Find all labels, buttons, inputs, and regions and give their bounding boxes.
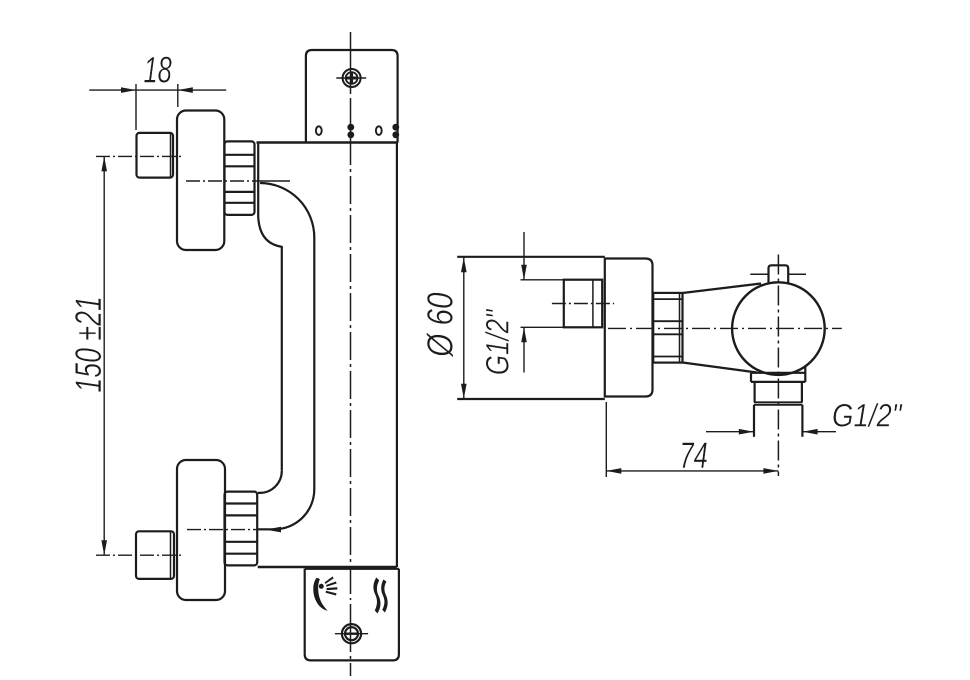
- body top edge: [257, 141, 398, 144]
- top bend outer arc: [260, 183, 314, 238]
- side body bottom edge: [457, 398, 605, 400]
- side nut: [653, 293, 682, 363]
- dimension 74 text: [680, 434, 708, 476]
- top escutcheon flange: [177, 111, 224, 251]
- svg-text:G1/2": G1/2": [832, 399, 903, 435]
- cone connector: [684, 284, 762, 373]
- side wall fitting: [564, 280, 602, 328]
- top connection nut: [225, 141, 255, 215]
- side body centerline: [608, 327, 842, 329]
- outlet pipe thread: [754, 405, 802, 437]
- dimension G12 side text: [480, 308, 516, 375]
- dimension 150 pm 21: [101, 156, 107, 555]
- dimension 18 text: [144, 48, 172, 90]
- dimension G12 outlet text: [832, 399, 903, 435]
- body right edge: [396, 143, 398, 568]
- bottom mounting plate: [305, 569, 399, 661]
- svg-text:G1/2": G1/2": [480, 308, 516, 375]
- side body top edge: [457, 256, 605, 258]
- bottom wall fitting: [136, 531, 174, 579]
- svg-text:74: 74: [680, 434, 708, 476]
- pipe left edge: [281, 246, 283, 471]
- dimension diameter 60 text: [421, 292, 462, 358]
- svg-text:150 ±21: 150 ±21: [68, 296, 109, 392]
- plate holes row: [316, 124, 399, 138]
- bottom nut centerline with arrow: [187, 527, 281, 533]
- bottom bend inner arc: [258, 471, 282, 493]
- waves icon: [373, 578, 387, 614]
- dimension 150 text: [68, 296, 109, 392]
- bottom bend outer arc: [258, 489, 315, 529]
- dimension diameter 60: [461, 257, 467, 398]
- bottom escutcheon flange: [177, 460, 225, 600]
- spray icon: [313, 577, 337, 611]
- top nub: [750, 265, 806, 282]
- top mounting plate: [306, 50, 398, 143]
- outlet collar: [751, 366, 805, 382]
- side fitting centerline: [552, 303, 614, 305]
- centerline vertical front view: [350, 32, 352, 676]
- top fitting centerline: [96, 155, 182, 157]
- dimension 18: [89, 84, 226, 130]
- top bend inner edge: [258, 143, 282, 247]
- bottom fitting centerline: [96, 554, 182, 556]
- side vertical centerline: [777, 255, 779, 477]
- dimension G12 outlet: [706, 429, 836, 435]
- knob circle: [732, 282, 825, 375]
- top nut centerline: [186, 180, 290, 182]
- top wall fitting: [137, 133, 174, 178]
- svg-text:18: 18: [144, 48, 172, 90]
- top plate screw: [336, 69, 366, 87]
- svg-text:Ø 60: Ø 60: [421, 292, 462, 358]
- side escutcheon: [605, 259, 653, 397]
- bottom plate screw: [335, 624, 368, 643]
- body bottom edge: [258, 566, 397, 569]
- dimension G12 side: [521, 232, 564, 373]
- outlet pipe upper: [754, 382, 802, 405]
- dimension 74: [606, 402, 778, 477]
- bottom connection nut: [225, 492, 258, 566]
- pipe right edge: [313, 237, 315, 490]
